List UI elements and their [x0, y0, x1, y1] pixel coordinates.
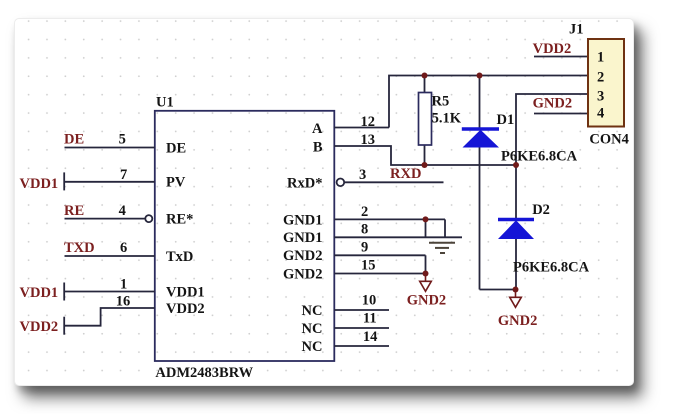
svg-text:GND1: GND1: [283, 230, 322, 246]
svg-text:RxD*: RxD*: [287, 175, 322, 191]
svg-text:12: 12: [361, 114, 376, 130]
svg-text:J1: J1: [569, 22, 584, 38]
svg-text:5: 5: [119, 132, 126, 148]
svg-text:NC: NC: [302, 303, 323, 319]
svg-text:VDD2: VDD2: [166, 301, 205, 317]
svg-text:16: 16: [116, 294, 131, 310]
svg-text:GND2: GND2: [533, 96, 572, 112]
svg-text:GND2: GND2: [498, 313, 537, 329]
svg-text:GND2: GND2: [283, 267, 322, 283]
svg-text:B: B: [313, 140, 323, 156]
svg-text:15: 15: [361, 258, 376, 274]
svg-text:RE*: RE*: [166, 212, 193, 228]
svg-text:14: 14: [363, 329, 378, 345]
svg-text:2: 2: [597, 70, 604, 86]
svg-text:VDD1: VDD1: [166, 285, 205, 301]
svg-text:3: 3: [597, 89, 604, 105]
svg-text:DE: DE: [64, 132, 84, 148]
svg-text:GND2: GND2: [407, 293, 446, 309]
svg-text:1: 1: [597, 50, 604, 66]
svg-text:VDD2: VDD2: [533, 41, 572, 57]
svg-text:4: 4: [597, 106, 604, 122]
svg-text:P6KE6.8CA: P6KE6.8CA: [513, 260, 590, 276]
svg-text:CON4: CON4: [589, 132, 628, 148]
svg-text:RXD: RXD: [390, 166, 421, 182]
svg-text:13: 13: [361, 132, 376, 148]
svg-text:4: 4: [119, 203, 126, 219]
svg-text:8: 8: [361, 222, 368, 238]
svg-text:5.1K: 5.1K: [432, 111, 462, 127]
svg-text:TXD: TXD: [64, 240, 95, 256]
svg-text:3: 3: [359, 167, 366, 183]
svg-text:GND1: GND1: [283, 213, 322, 229]
svg-text:6: 6: [120, 240, 127, 256]
svg-text:R5: R5: [432, 94, 450, 110]
svg-text:VDD1: VDD1: [20, 176, 59, 192]
svg-text:NC: NC: [302, 339, 323, 355]
svg-text:P6KE6.8CA: P6KE6.8CA: [501, 149, 578, 165]
svg-text:GND2: GND2: [283, 248, 322, 264]
svg-text:ADM2483BRW: ADM2483BRW: [155, 365, 253, 381]
svg-text:A: A: [312, 121, 323, 137]
svg-text:PV: PV: [166, 175, 186, 191]
svg-text:TxD: TxD: [166, 249, 193, 265]
svg-text:VDD1: VDD1: [20, 285, 59, 301]
svg-text:NC: NC: [302, 321, 323, 337]
svg-text:10: 10: [362, 293, 377, 309]
svg-text:D1: D1: [497, 112, 515, 128]
svg-text:RE: RE: [64, 203, 84, 219]
svg-text:11: 11: [363, 311, 377, 327]
svg-text:1: 1: [120, 277, 127, 293]
svg-text:2: 2: [361, 204, 368, 220]
svg-text:DE: DE: [166, 141, 186, 157]
svg-text:9: 9: [361, 240, 368, 256]
svg-text:U1: U1: [156, 95, 174, 111]
svg-text:D2: D2: [532, 202, 550, 218]
svg-text:VDD2: VDD2: [20, 319, 59, 335]
svg-text:7: 7: [120, 167, 127, 183]
